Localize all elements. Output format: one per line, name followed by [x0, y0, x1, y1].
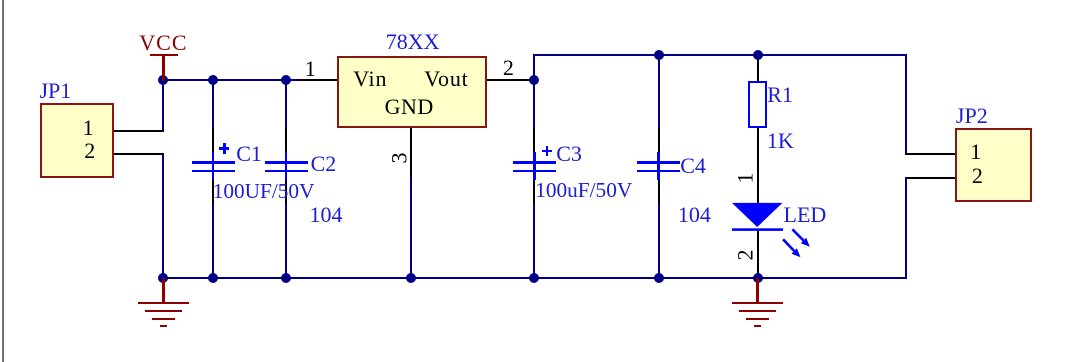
designator C3: [556, 143, 582, 165]
C4 blue lead stub: [657, 152, 660, 180]
ground symbol (left): [162, 278, 164, 303]
value 100UF/50V: [213, 181, 315, 202]
pin lead: C1 bottom pin (black segment): [212, 180, 214, 203]
capacitor C3 bottom plate: [513, 170, 556, 173]
pin number 3 (78XX, rotated): [388, 152, 410, 163]
designator C2: [311, 153, 337, 175]
junction dot: VCC node: [158, 75, 168, 85]
designator C4: [680, 155, 706, 177]
C3 blue lead stub: [533, 152, 536, 180]
wire: JP1 pin2 vertical down to ground rail: [162, 153, 164, 279]
C2 blue lead stub: [285, 152, 288, 180]
wire: VCC input rail (top-left horizontal): [162, 79, 313, 81]
pin lead: C1 top pin (black segment): [212, 128, 214, 152]
capacitor C4 top plate: [637, 161, 680, 164]
connector JP1: [40, 80, 72, 102]
junction dot: gnd rail at C3: [529, 273, 539, 283]
sheet left border: [2, 0, 4, 362]
junction dot: R1 top: [753, 50, 763, 60]
wire: 78XX pin3 navy part down to rail: [410, 178, 412, 279]
capacitor C3 top plate: [513, 161, 556, 164]
pin lead: 78XX pin3 (GND) black part: [410, 128, 412, 179]
wire: JP1 pin1 vertical up to VCC rail: [162, 79, 164, 131]
pin lead: JP2 pin1: [906, 153, 955, 155]
value 100uF/50V: [535, 180, 632, 201]
junction dot: gnd rail at JP1: [158, 273, 168, 283]
wire: riser from 78XX pin2 junction to output rail: [533, 54, 535, 81]
pin lead: C4 bottom pin: [658, 180, 660, 203]
junction dot: C2 top: [281, 75, 291, 85]
capacitor C4 bottom plate: [637, 170, 680, 173]
C1 blue lead stub: [212, 152, 215, 180]
pin lead: R1 top: [757, 55, 759, 81]
pin lead: C3 bottom pin: [533, 180, 535, 203]
connector JP2: [956, 105, 988, 127]
value 104 (C4): [678, 204, 711, 226]
designator LED: [784, 204, 827, 226]
junction dot: gnd rail at LED: [753, 273, 763, 283]
ground symbol (right): [756, 278, 758, 303]
pin lead: 78XX pin1 (Vin): [298, 79, 338, 81]
wire: bottom ground rail: [162, 277, 907, 279]
resistor R1 body: [748, 81, 767, 129]
pin number 1 (LED, rotated): [734, 172, 756, 183]
pin lead: JP2 pin2: [906, 177, 955, 179]
capacitor C1 top plate: [192, 161, 235, 164]
pin lead: C2 top pin: [285, 128, 287, 152]
wire: C1 vertical: [212, 79, 214, 279]
capacitor C2 top plate: [265, 161, 308, 164]
wire: C3 vertical: [533, 79, 535, 279]
regulator U1 78XX: [386, 31, 440, 53]
junction dot: gnd rail at C2: [281, 273, 291, 283]
wire: C4 vertical: [658, 54, 660, 279]
junction dot: gnd rail at C1: [208, 273, 218, 283]
pin lead: C4 top pin: [658, 128, 660, 152]
pin number 2 (LED, rotated): [734, 249, 756, 260]
junction dot: Vout node: [529, 75, 539, 85]
wire: output rail (top-right horizontal): [533, 54, 907, 56]
capacitor C1 bottom plate: [192, 170, 235, 173]
wire: right drop from JP2 pin2 to ground rail: [905, 177, 907, 280]
capacitor C1 plus sign: [219, 147, 229, 150]
pin lead: JP1 pin1: [113, 130, 164, 132]
pin lead: 78XX pin2 (Vout): [487, 79, 529, 81]
value 1K: [767, 130, 794, 152]
wire: C2 vertical: [285, 79, 287, 279]
pin number 2 (78XX): [503, 57, 514, 79]
designator C1: [236, 143, 262, 165]
junction dot: C4 top: [654, 50, 664, 60]
designator R1: [767, 84, 793, 106]
junction dot: gnd rail at pin3: [406, 273, 416, 283]
pin lead: JP1 pin2: [113, 153, 164, 155]
pin lead: C2 bottom pin: [285, 180, 287, 203]
capacitor C2 bottom plate: [265, 170, 308, 173]
capacitor C3 plus sign: [542, 150, 552, 153]
wire: right riser to JP2 pin1: [905, 54, 907, 155]
junction dot: C1 top: [208, 75, 218, 85]
power symbol VCC: [139, 32, 187, 54]
LED D1 symbol (triangle, cathode bar, light arrows): [720, 195, 820, 265]
pin lead: R1 bottom to LED pin1: [757, 128, 759, 203]
value 104 (C2): [310, 204, 343, 226]
junction dot: gnd rail at C4: [654, 273, 664, 283]
pin number 1 (78XX): [305, 58, 316, 80]
pin lead: C3 top pin: [533, 128, 535, 152]
pin lead: LED pin2 down to rail: [757, 231, 759, 278]
